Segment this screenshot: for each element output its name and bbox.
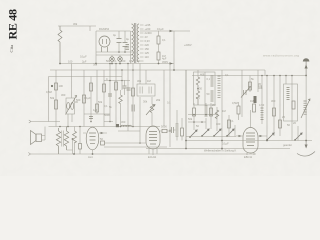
svg-text:0,1: 0,1 (225, 73, 229, 77)
svg-text:ZF: ZF (258, 82, 262, 86)
IF transformer IFT1 (194, 70, 216, 105)
wire (67, 139, 73, 154)
svg-text:0,1: 0,1 (113, 59, 117, 63)
svg-text:468: 468 (258, 86, 263, 90)
capacitor C5 (127, 88, 131, 90)
wire (68, 114, 72, 127)
resistor R23 (215, 110, 219, 119)
resistor R11 (132, 88, 135, 96)
wire (104, 143, 167, 147)
node arrow junction (170, 30, 173, 32)
wire bottom bus (31, 153, 257, 155)
svg-text:1M: 1M (250, 99, 254, 103)
svg-text:0,1: 0,1 (207, 77, 211, 81)
capacitor C2 (123, 31, 130, 52)
svg-text:50k: 50k (106, 59, 111, 63)
grid resistor R7 (100, 137, 105, 145)
labels IF (225, 73, 263, 88)
node (72, 138, 74, 140)
svg-text:100: 100 (216, 122, 221, 126)
svg-text:0,1µF: 0,1µF (80, 55, 87, 59)
wire (84, 70, 110, 114)
resistor R20 (90, 83, 93, 91)
trimmer TC1 (241, 87, 251, 98)
coil box L1 (137, 84, 155, 96)
svg-text:30k: 30k (93, 63, 98, 67)
labels right cluster (258, 82, 263, 90)
svg-text:2M: 2M (212, 103, 216, 107)
wire (146, 148, 290, 150)
resistor R17 (273, 108, 276, 116)
svg-text:RGN354: RGN354 (99, 27, 110, 31)
svg-text:RE 48: RE 48 (6, 9, 20, 39)
svg-text:C: C (106, 77, 108, 81)
labels mid low (104, 104, 126, 124)
bus A (60, 63, 174, 65)
node dots mid (59, 121, 141, 144)
lamp LA1 (110, 55, 115, 64)
wire (216, 107, 218, 131)
resistor R18 (279, 120, 282, 128)
wire (83, 70, 85, 127)
labels right (259, 99, 290, 127)
ground (283, 141, 315, 157)
svg-text:1µF: 1µF (93, 108, 98, 112)
transformer taps (140, 23, 152, 61)
main vertical (185, 70, 187, 149)
svg-text:geerdet: geerdet (283, 143, 292, 147)
switch S3 (213, 129, 221, 137)
wire with component (132, 64, 135, 127)
wire (145, 70, 147, 84)
resistor R10 (119, 90, 123, 127)
wire (71, 64, 73, 99)
resistor R3 (157, 52, 166, 64)
svg-text:50k: 50k (98, 100, 103, 104)
svg-text:0,1µF: 0,1µF (84, 96, 91, 100)
node dots bus D (261, 75, 293, 77)
wire (48, 77, 50, 122)
resistor R9 (115, 82, 118, 90)
svg-text:0,5: 0,5 (129, 59, 133, 63)
wire (188, 115, 235, 137)
svg-text:4·50: 4·50 (259, 103, 265, 107)
wire (266, 76, 268, 141)
resistor R25 (228, 120, 231, 128)
wire (163, 70, 165, 127)
svg-text:ECH11: ECH11 (148, 155, 157, 159)
wire (273, 76, 275, 137)
wire B+ line (140, 30, 190, 32)
svg-text:50k: 50k (50, 96, 55, 100)
svg-text:4µF: 4µF (162, 57, 167, 61)
svg-text:220: 220 (145, 43, 150, 47)
wire (221, 70, 223, 150)
switch S5 (266, 133, 274, 141)
wire (139, 64, 141, 105)
junction block (116, 124, 119, 127)
svg-text:www.radiomuseum.org: www.radiomuseum.org (263, 54, 299, 58)
wire heater lines (96, 52, 133, 55)
wire (257, 70, 259, 92)
coil L7 (121, 125, 131, 126)
svg-text:300: 300 (271, 99, 276, 103)
hatched coil L5 (261, 108, 264, 120)
wire (121, 70, 123, 90)
svg-text:125: 125 (145, 51, 150, 55)
hatched coil L3 (218, 76, 221, 98)
svg-text:4µ: 4µ (126, 37, 129, 41)
wire (186, 136, 236, 138)
svg-text:30k: 30k (143, 100, 148, 104)
svg-text:1M: 1M (147, 79, 151, 83)
resistor R21 (96, 104, 99, 112)
speaker SP (31, 127, 46, 145)
svg-text:110: 110 (145, 55, 150, 59)
svg-text:100: 100 (59, 84, 64, 88)
svg-text:20k: 20k (156, 98, 161, 102)
svg-text:0,1µF: 0,1µF (157, 27, 164, 31)
svg-text:1M: 1M (222, 109, 226, 113)
wire (173, 31, 175, 70)
labels above bus (68, 55, 98, 67)
hatched coil L2 (170, 64, 179, 148)
svg-text:AL4: AL4 (88, 155, 93, 159)
svg-text:6,3V: 6,3V (145, 39, 151, 43)
hatched coil L6 (301, 99, 310, 118)
svg-text:4µ: 4µ (113, 33, 116, 37)
svg-text:0,1: 0,1 (230, 119, 234, 123)
capacitor C9 (89, 117, 93, 119)
capacitor C3 (106, 77, 112, 96)
resistor R1 30k (58, 22, 78, 64)
svg-text:150: 150 (145, 47, 150, 51)
power transformer T1 (132, 23, 140, 63)
wire (210, 103, 212, 129)
labels centre (106, 59, 161, 109)
wire (104, 104, 140, 143)
resistor R16 (193, 103, 196, 130)
svg-text:EBC11: EBC11 (244, 155, 253, 159)
svg-text:468: 468 (200, 73, 205, 77)
resistor R5 (50, 96, 58, 109)
svg-text:0,1: 0,1 (104, 104, 108, 108)
resistor R12 (146, 97, 155, 126)
bus C (49, 76, 123, 78)
rectifier enclosure (96, 31, 131, 64)
wire rf cross (104, 80, 130, 82)
bus B (50, 70, 265, 76)
node dots power (59, 51, 175, 71)
svg-text:30k: 30k (73, 22, 78, 26)
tuner can (284, 84, 298, 121)
svg-text:5000: 5000 (104, 113, 110, 117)
switch S6 (294, 133, 302, 141)
svg-text:2µF: 2µF (82, 60, 87, 64)
wire (127, 64, 129, 132)
bus D (192, 75, 306, 77)
svg-text:100: 100 (68, 60, 73, 64)
svg-text:50k: 50k (188, 117, 193, 121)
wire bottom rails (186, 140, 312, 142)
antenna (303, 58, 310, 140)
switch S4 (226, 129, 234, 137)
svg-text:450V: 450V (162, 60, 168, 64)
lamp LA2 (118, 55, 123, 64)
wire top-left rail (58, 25, 96, 27)
title model name RE 48 (6, 9, 20, 52)
wire (109, 64, 111, 122)
hatched coil L4 (205, 103, 208, 129)
svg-text:0,1: 0,1 (162, 38, 166, 42)
labels IF low (188, 96, 226, 121)
labels mid2 (46, 90, 66, 97)
resistor R2 (157, 31, 166, 52)
switch S1 (189, 130, 197, 138)
wire (285, 76, 287, 85)
svg-text:100: 100 (121, 59, 126, 63)
svg-text:Wellenschalter in Stellung K: Wellenschalter in Stellung K (204, 149, 237, 153)
coupling cap C6 (161, 125, 167, 133)
svg-text:300: 300 (61, 93, 66, 97)
svg-text:300: 300 (121, 120, 126, 124)
svg-text:+245V: +245V (184, 43, 192, 47)
capacitor C1 (113, 31, 122, 52)
labels left mid (75, 96, 103, 112)
wire (292, 76, 298, 141)
svg-text:0,1: 0,1 (167, 101, 171, 105)
wire (279, 76, 281, 137)
resistor R8 (103, 84, 106, 92)
wire (261, 76, 263, 125)
svg-text:2x300: 2x300 (145, 31, 153, 35)
output transformer T2 (56, 127, 68, 155)
capacitor C4 (123, 80, 127, 95)
svg-text:Cita: Cita (9, 45, 14, 53)
resistor R4 (51, 83, 63, 90)
terminal wire (29, 120, 60, 123)
svg-text:0,5: 0,5 (196, 96, 200, 100)
svg-text:0,5M: 0,5M (232, 101, 238, 105)
resistor R6 (73, 127, 82, 155)
node dots bottom (73, 140, 307, 155)
wire (115, 64, 117, 125)
resistor R24 (249, 76, 252, 93)
switch S2 (201, 129, 209, 137)
wire mid IF (188, 114, 218, 116)
capacitor C10 (132, 105, 134, 112)
resistor R22 (210, 108, 213, 116)
wire (160, 130, 170, 132)
resistor R14 (232, 101, 240, 120)
capacitor C11 (254, 96, 257, 103)
wire (55, 70, 57, 127)
output tube V4 AL4 (83, 127, 107, 154)
capacitor C2b stack (126, 45, 130, 50)
wire (90, 77, 92, 122)
wire (89, 26, 91, 31)
wire (241, 70, 243, 117)
svg-text:0,5M: 0,5M (46, 90, 52, 94)
svg-text:+245: +245 (145, 23, 151, 27)
labels top right of bus A end (162, 57, 168, 65)
resistor R19 (83, 95, 86, 103)
svg-text:4V: 4V (145, 35, 148, 39)
svg-text:30k: 30k (137, 79, 142, 83)
rectifier tube V1 (99, 36, 110, 52)
resistor R15 (250, 99, 256, 112)
capacitor C8 (169, 127, 177, 133)
svg-text:0,1µF: 0,1µF (222, 142, 229, 146)
tuning capacitor CV1 (66, 96, 81, 115)
resistor R13 (181, 118, 184, 141)
triode-hexode V2 ECH11 (146, 126, 160, 155)
wire (103, 70, 105, 127)
svg-text:+220: +220 (145, 27, 151, 31)
wire (49, 126, 161, 128)
